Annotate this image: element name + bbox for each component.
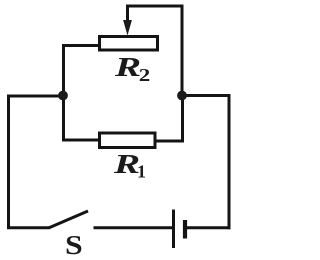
- svg-text:R: R: [114, 53, 141, 83]
- svg-text:2: 2: [139, 66, 151, 85]
- switch S blade (open): [49, 211, 89, 228]
- wire: right vertical from top wire down to node B: [181, 5, 184, 97]
- wire: bottom-left horizontal to switch pivot: [7, 226, 49, 229]
- wire: battery to right rail: [187, 226, 231, 229]
- svg-text:R: R: [113, 150, 140, 180]
- svg-text:1: 1: [137, 162, 146, 182]
- wire: switch contact to battery: [94, 226, 173, 229]
- wire: left rail vertical: [7, 95, 10, 229]
- wire: node B to right rail: [182, 94, 231, 97]
- node B (right junction dot): [177, 91, 187, 101]
- resistor R2 (rheostat body): [100, 37, 158, 51]
- wire: top horizontal from wiper to right drop: [126, 5, 182, 8]
- battery: short thick plate (negative): [183, 220, 187, 239]
- wire: R2 branch left vertical + lead: [64, 46, 100, 97]
- svg-text:S: S: [65, 231, 83, 260]
- label R1: [113, 150, 140, 180]
- wire: R1 right lead + vertical up to node B: [155, 96, 183, 141]
- battery: long plate (positive): [172, 210, 175, 249]
- wire: left horizontal from left rail to node A: [7, 95, 63, 98]
- resistor R1: [100, 133, 156, 148]
- wire: R1 branch left vertical + lead: [64, 95, 101, 140]
- wiper arrow of R2: [126, 6, 129, 23]
- wire: right rail vertical: [228, 94, 231, 229]
- label R2: [114, 53, 141, 83]
- node A (left junction dot): [58, 91, 68, 101]
- label S (switch): [65, 231, 83, 260]
